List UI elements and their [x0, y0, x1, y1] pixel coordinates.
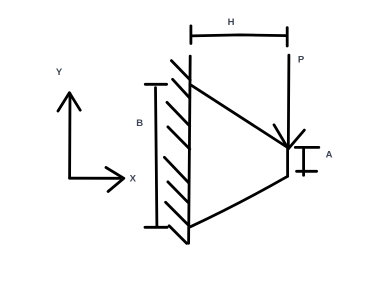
X axis arrowhead — [106, 168, 124, 192]
wall hatch 8 — [169, 226, 187, 244]
svg-text:X: X — [130, 174, 137, 185]
svg-text:B: B — [136, 118, 143, 129]
beam bottom edge — [190, 176, 287, 227]
beam top edge — [190, 84, 288, 147]
wall hatch 4 — [168, 127, 190, 149]
wall hatch 1 — [171, 61, 190, 80]
dimension B bottom tick — [145, 226, 167, 229]
force P line — [287, 55, 290, 149]
Y axis shaft — [68, 94, 71, 178]
wall hatch 5 — [164, 157, 189, 183]
beam right edge — [286, 146, 289, 176]
wall hatch 3 — [167, 102, 190, 126]
svg-text:A: A — [326, 149, 333, 160]
dimension H right tick — [286, 28, 289, 46]
dimension H left tick — [189, 26, 192, 44]
svg-text:H: H — [228, 17, 235, 28]
wall line — [189, 56, 191, 243]
svg-text:Y: Y — [56, 67, 63, 78]
dimension A top tick — [295, 146, 319, 149]
wall hatch 7 — [166, 202, 188, 224]
dimension A line — [302, 149, 305, 175]
dimension A bottom tick — [297, 170, 317, 173]
dimension B top tick — [145, 83, 166, 86]
wall hatch 2 — [173, 79, 190, 98]
Y axis arrowhead — [58, 93, 80, 111]
dimension B line — [156, 88, 157, 227]
dimension H line — [192, 35, 287, 36]
wall hatch 6 — [168, 182, 188, 202]
svg-text:P: P — [298, 55, 305, 66]
force P arrowhead — [274, 125, 304, 149]
X axis shaft — [70, 177, 120, 180]
